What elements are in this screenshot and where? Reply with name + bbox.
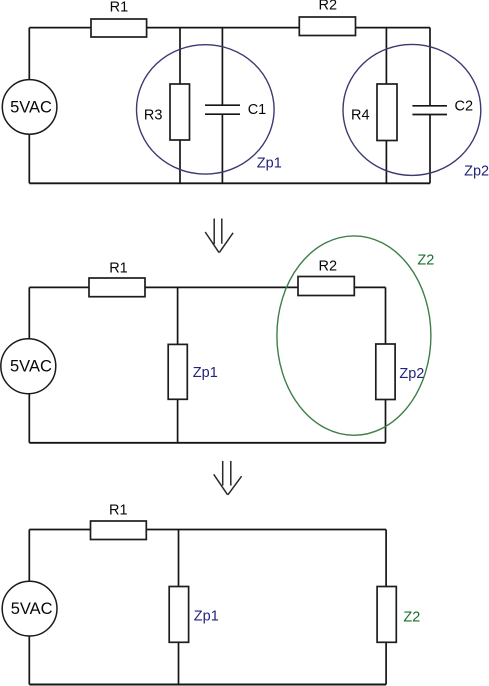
resistor R2 circuit2	[298, 277, 354, 296]
svg-text:R1: R1	[109, 503, 128, 519]
wire R4 branch	[385, 28, 387, 184]
wire Z2 branch circuit3	[385, 530, 387, 685]
svg-text:5VAC: 5VAC	[10, 99, 52, 117]
resistor R3	[170, 84, 190, 140]
arrow transform 2	[214, 461, 242, 495]
wire R3 branch	[179, 28, 181, 184]
svg-text:C2: C2	[455, 99, 474, 115]
svg-text:5VAC: 5VAC	[11, 600, 53, 618]
svg-text:5VAC: 5VAC	[10, 357, 52, 375]
svg-text:R4: R4	[351, 108, 370, 124]
svg-text:R2: R2	[319, 0, 338, 14]
svg-text:Zp1: Zp1	[194, 608, 219, 624]
svg-text:Zp2: Zp2	[464, 164, 489, 180]
source V1 5VAC circuit1	[2, 80, 57, 135]
resistor R1 circuit3	[91, 521, 147, 540]
wire bottom rail circuit1	[29, 182, 430, 184]
svg-text:C1: C1	[248, 102, 267, 118]
impedance Z2 circuit3	[377, 587, 396, 643]
resistor R4	[377, 84, 397, 141]
capacitor C2	[412, 106, 447, 115]
source V1 5VAC circuit2	[1, 339, 56, 394]
svg-text:Z2: Z2	[417, 253, 434, 269]
wire left branch circuit1	[28, 28, 30, 184]
source V1 5VAC circuit3	[2, 581, 57, 636]
svg-text:R2: R2	[319, 258, 338, 274]
wire Zp1 branch circuit3	[178, 530, 180, 685]
svg-text:R3: R3	[144, 107, 163, 123]
wire top rail circuit2	[29, 286, 385, 288]
wire Zp1 branch circuit2	[177, 287, 179, 442]
resistor R2 circuit1	[299, 17, 355, 36]
wire left branch circuit3	[28, 530, 30, 685]
svg-text:Z2: Z2	[403, 609, 420, 625]
wire top rail circuit1	[29, 27, 430, 29]
wire C2 branch lower	[429, 115, 431, 184]
wire C1 branch upper	[221, 28, 223, 106]
wire Zp2 branch circuit2	[385, 287, 387, 442]
region circle Zp1	[137, 45, 275, 174]
region circle Zp2	[343, 44, 481, 175]
svg-text:R1: R1	[110, 0, 129, 16]
capacitor C1	[205, 105, 240, 114]
wire C2 branch upper	[429, 28, 431, 106]
wire bottom rail circuit2	[29, 442, 385, 444]
resistor R1 circuit2	[89, 278, 145, 297]
wire bottom rail circuit3	[29, 684, 386, 686]
impedance Zp1 circuit2	[168, 344, 187, 399]
svg-text:Zp2: Zp2	[399, 366, 424, 382]
region ellipse Z2	[277, 236, 431, 435]
impedance Zp2 circuit2	[376, 344, 395, 400]
wire top rail circuit3	[29, 529, 386, 531]
wire left branch circuit2	[28, 287, 30, 442]
svg-text:Zp1: Zp1	[257, 156, 282, 172]
impedance Zp1 circuit3	[169, 587, 188, 643]
svg-text:Zp1: Zp1	[193, 365, 218, 381]
wire C1 branch lower	[221, 114, 223, 183]
resistor R1 circuit1	[91, 19, 147, 37]
arrow transform 1	[205, 219, 233, 253]
svg-text:R1: R1	[109, 261, 128, 277]
